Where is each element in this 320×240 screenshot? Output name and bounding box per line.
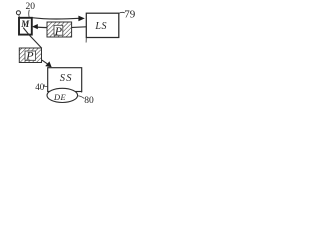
leader line for 79 <box>119 12 125 13</box>
svg-text:80: 80 <box>84 96 94 106</box>
svg-text:P: P <box>25 49 34 63</box>
pump box P1 (hatched, upper) <box>47 22 72 37</box>
svg-text:LS: LS <box>94 21 107 32</box>
pump box P2 (hatched, lower) <box>19 48 41 63</box>
leader line for 20 <box>28 10 31 18</box>
wire: diagonal from pump P2 to SS box <box>41 60 49 65</box>
leader line for 80 <box>78 96 84 99</box>
signal box SS <box>48 68 82 92</box>
arrowhead into SS (points down-right) <box>45 61 52 67</box>
terminal circle at M top-left <box>16 11 20 15</box>
arrowhead into LS (points right) <box>78 16 84 22</box>
svg-text:DE: DE <box>53 93 66 102</box>
ellipse DE <box>47 88 78 102</box>
overshoot at SS bottom-right corner <box>81 91 83 93</box>
label plate P2 <box>25 51 36 60</box>
wire: line from M to LS (upper) <box>32 18 79 19</box>
stub below LS bottom-left corner <box>85 38 87 43</box>
arrowhead into M (points left) <box>32 24 38 29</box>
load sensing box LS <box>86 13 119 37</box>
svg-text:P: P <box>54 24 63 38</box>
svg-text:M: M <box>20 19 30 29</box>
leader line for 40 <box>44 85 48 87</box>
svg-text:79: 79 <box>124 9 136 21</box>
svg-text:20: 20 <box>25 2 35 12</box>
stem circle to M corner <box>18 14 21 17</box>
svg-text:40: 40 <box>35 82 45 92</box>
wire: line from LS to M (lower, passes behind pump P1) <box>34 26 87 29</box>
svg-text:SS: SS <box>60 73 73 84</box>
motor box M <box>19 18 32 35</box>
label plate P1 <box>54 25 63 35</box>
wire: diagonal shaft line from M down to pump P2 <box>23 28 42 49</box>
